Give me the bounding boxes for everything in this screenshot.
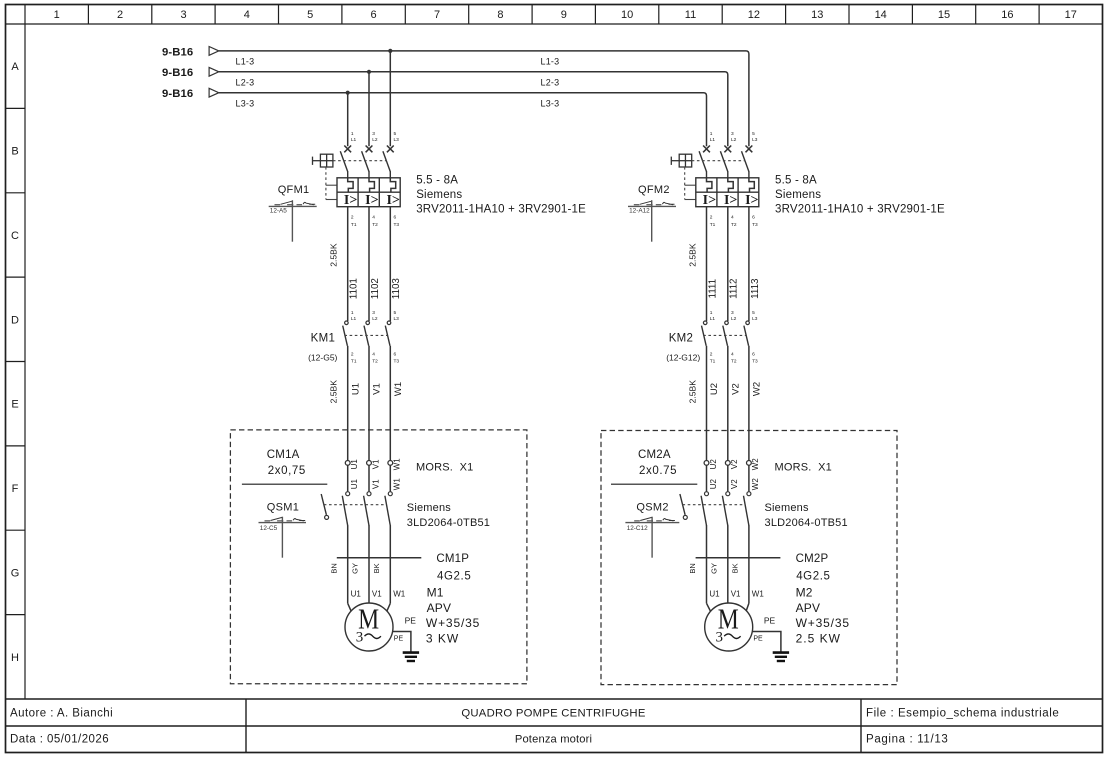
svg-text:(12-G12): (12-G12) bbox=[666, 353, 700, 363]
svg-text:2: 2 bbox=[117, 9, 123, 21]
QFM2 pole 2 thermal element bbox=[728, 178, 733, 192]
svg-text:D: D bbox=[11, 314, 19, 326]
QFM1 pole 1 fixed contact X bbox=[344, 146, 351, 153]
QSM1 aux contacts mini-symbols bbox=[265, 517, 306, 521]
wire X1 to QSM2 pole 3 bbox=[748, 465, 750, 491]
svg-text:T3: T3 bbox=[394, 222, 400, 228]
svg-text:2x0,75: 2x0,75 bbox=[268, 465, 306, 477]
svg-text:C: C bbox=[11, 230, 19, 242]
svg-text:QFM2: QFM2 bbox=[638, 184, 670, 196]
svg-text:1103: 1103 bbox=[391, 278, 402, 300]
svg-text:PE: PE bbox=[405, 615, 417, 625]
svg-text:6: 6 bbox=[394, 351, 397, 357]
QFM2 aux contacts mini-symbols bbox=[634, 201, 675, 205]
switch part number Siemens 3LD2064-0TB51 bbox=[765, 502, 848, 529]
QFM2 pole 1 blade bbox=[699, 151, 706, 171]
QSM1 pole 2 contact circle bbox=[367, 492, 371, 496]
QFM2 pole 3 thermal element bbox=[749, 178, 754, 192]
QSM1 cross-reference line bbox=[259, 522, 307, 524]
wire into motor pole 1 bbox=[707, 603, 714, 616]
svg-text:1: 1 bbox=[351, 310, 354, 316]
QFM1 pole 2 blade bbox=[362, 151, 369, 171]
svg-text:4: 4 bbox=[731, 215, 734, 221]
svg-text:13: 13 bbox=[811, 9, 823, 21]
QFM1 cross-reference line bbox=[269, 205, 317, 207]
svg-text:4: 4 bbox=[372, 215, 375, 221]
svg-text:I>: I> bbox=[703, 193, 716, 208]
svg-text:I>: I> bbox=[344, 193, 357, 208]
svg-text:W2: W2 bbox=[752, 382, 763, 396]
enclosure dashed box around M2 bbox=[601, 431, 897, 685]
QSM2 aux contacts mini-symbols bbox=[634, 517, 675, 521]
svg-text:T3: T3 bbox=[394, 358, 400, 364]
row letters A-H bbox=[11, 61, 20, 664]
svg-text:5.5 - 8A: 5.5 - 8A bbox=[416, 174, 458, 186]
svg-text:T1: T1 bbox=[710, 358, 716, 364]
svg-text:2: 2 bbox=[710, 215, 713, 221]
wire 1111 QFM to KM pole 1 bbox=[706, 207, 708, 321]
svg-text:PE: PE bbox=[394, 635, 404, 642]
svg-text:3RV2011-1HA10 + 3RV2901-1E: 3RV2011-1HA10 + 3RV2901-1E bbox=[775, 204, 945, 216]
svg-text:I>: I> bbox=[724, 193, 737, 208]
svg-text:APV: APV bbox=[427, 601, 452, 615]
svg-text:Autore : A. Bianchi: Autore : A. Bianchi bbox=[10, 708, 113, 720]
QFM1 operator handle bbox=[313, 154, 333, 167]
svg-text:16: 16 bbox=[1001, 9, 1013, 21]
svg-text:L3: L3 bbox=[394, 316, 400, 322]
wire QFM1 pole 2 blade to box bbox=[368, 171, 370, 178]
svg-text:H: H bbox=[11, 652, 19, 664]
svg-text:G: G bbox=[11, 567, 20, 579]
QSM1 mechanism blade bbox=[321, 494, 326, 515]
svg-text:I>: I> bbox=[745, 193, 758, 208]
svg-text:2.5BK: 2.5BK bbox=[687, 243, 697, 267]
svg-text:MORS. X1: MORS. X1 bbox=[416, 462, 473, 474]
QSM2 pole 1 contact circle bbox=[705, 492, 709, 496]
svg-text:W2: W2 bbox=[751, 458, 760, 471]
KM1 pole 3 contact circle bbox=[387, 321, 391, 325]
svg-text:APV: APV bbox=[796, 601, 821, 615]
svg-text:L1-3: L1-3 bbox=[236, 57, 255, 67]
svg-text:1: 1 bbox=[710, 131, 713, 137]
motor M1 circle bbox=[345, 603, 393, 651]
svg-text:V2: V2 bbox=[731, 383, 742, 395]
svg-text:M2: M2 bbox=[796, 586, 813, 600]
svg-text:Siemens: Siemens bbox=[416, 189, 462, 201]
QSM2 mechanism blade bbox=[680, 494, 685, 515]
svg-text:I>: I> bbox=[386, 193, 399, 208]
KM2 pole 2 blade bbox=[723, 326, 728, 346]
QSM2 linkage dashed bbox=[683, 504, 745, 506]
svg-text:Pagina : 11/13: Pagina : 11/13 bbox=[866, 734, 948, 746]
svg-text:V2: V2 bbox=[730, 459, 739, 469]
QFM2 pole 3 fixed contact X bbox=[746, 146, 753, 153]
wire QFM2 pole 3 blade to box bbox=[748, 171, 750, 178]
QFM2 rating label 5.5 - 8A Siemens bbox=[775, 174, 945, 215]
svg-text:CM2A: CM2A bbox=[638, 449, 671, 461]
enclosure dashed box around M1 bbox=[230, 430, 527, 684]
svg-text:L1: L1 bbox=[710, 316, 716, 322]
svg-text:U2: U2 bbox=[709, 383, 720, 395]
svg-text:2: 2 bbox=[351, 215, 354, 221]
svg-text:BK: BK bbox=[731, 563, 740, 573]
terminal X1 U1 circle bbox=[345, 461, 350, 466]
QFM1 pole 2 fixed contact X bbox=[366, 146, 373, 153]
junction dot L1-3 bbox=[388, 49, 392, 53]
motor cable rule line bbox=[337, 557, 422, 559]
KM1 pole 1 blade bbox=[343, 326, 348, 346]
motor M2 circle bbox=[705, 603, 753, 651]
QFM1 pole 1 thermal element bbox=[348, 178, 353, 192]
QSM2 pole 2 blade bbox=[722, 496, 727, 526]
svg-text:L2-3: L2-3 bbox=[541, 78, 560, 88]
wire KM2 to terminal X1 pole 3 bbox=[748, 346, 750, 461]
svg-text:L2: L2 bbox=[731, 316, 737, 322]
svg-text:U1: U1 bbox=[350, 479, 359, 490]
svg-text:W1: W1 bbox=[393, 382, 404, 396]
svg-text:E: E bbox=[11, 399, 18, 411]
svg-text:T3: T3 bbox=[752, 222, 758, 228]
svg-text:T2: T2 bbox=[372, 358, 378, 364]
svg-text:F: F bbox=[12, 483, 19, 495]
svg-text:T2: T2 bbox=[372, 222, 378, 228]
QFM2 pole 2 blade bbox=[720, 151, 727, 171]
svg-text:L2: L2 bbox=[372, 137, 378, 143]
svg-text:Data : 05/01/2026: Data : 05/01/2026 bbox=[10, 734, 109, 746]
QSM1 linkage dashed bbox=[324, 504, 386, 506]
svg-text:QUADRO POMPE CENTRIFUGHE: QUADRO POMPE CENTRIFUGHE bbox=[461, 708, 645, 720]
svg-text:L3: L3 bbox=[752, 137, 758, 143]
wire QFM1 pole 1 blade to box bbox=[347, 171, 349, 178]
svg-text:2: 2 bbox=[351, 351, 354, 357]
KM2 pole 2 contact circle bbox=[725, 321, 729, 325]
svg-text:Siemens: Siemens bbox=[765, 502, 809, 514]
svg-text:W+35/35: W+35/35 bbox=[426, 616, 480, 630]
svg-text:GY: GY bbox=[709, 563, 718, 574]
svg-text:2.5BK: 2.5BK bbox=[329, 243, 339, 267]
QFM2 pole 1 fixed contact X bbox=[703, 146, 710, 153]
QFM2 operator handle bbox=[671, 154, 691, 167]
wire into motor pole 3 bbox=[385, 603, 391, 616]
svg-text:2.5 KW: 2.5 KW bbox=[796, 631, 841, 645]
terminal X1 V1 circle bbox=[367, 461, 372, 466]
svg-text:QFM1: QFM1 bbox=[278, 184, 310, 196]
svg-text:L2-3: L2-3 bbox=[236, 78, 255, 88]
QFM2 pole 1 thermal element bbox=[707, 178, 712, 192]
junction dot L2-3 bbox=[367, 70, 371, 74]
svg-text:L3: L3 bbox=[394, 137, 400, 143]
svg-text:14: 14 bbox=[875, 9, 887, 21]
QSM2 pole 1 blade bbox=[701, 496, 706, 526]
QFM1 aux contacts mini-symbols bbox=[275, 201, 316, 205]
wire QSM1 to motor pole 2 bbox=[368, 525, 370, 603]
svg-text:CM1A: CM1A bbox=[267, 449, 300, 461]
svg-text:U2: U2 bbox=[709, 479, 718, 490]
svg-text:T2: T2 bbox=[731, 222, 737, 228]
svg-text:3: 3 bbox=[731, 310, 734, 316]
svg-text:CM1P: CM1P bbox=[436, 553, 469, 565]
wire QFM2 pole 2 blade to box bbox=[727, 171, 729, 178]
svg-text:1102: 1102 bbox=[370, 278, 381, 299]
wire KM1 to terminal X1 pole 1 bbox=[347, 346, 349, 461]
svg-text:5: 5 bbox=[752, 310, 755, 316]
PE wire from motor to earth bbox=[752, 632, 781, 652]
svg-text:4G2.5: 4G2.5 bbox=[437, 570, 471, 582]
QFM1 handle to trip units dashed drop bbox=[326, 167, 337, 200]
svg-text:W1: W1 bbox=[393, 478, 402, 491]
wire drop to QFM1 pole1 from L3-3 bbox=[347, 93, 349, 147]
svg-text:I>: I> bbox=[365, 193, 378, 208]
QSM2 pole 3 blade bbox=[744, 496, 749, 526]
QFM2 breaker body box bbox=[696, 178, 759, 207]
svg-text:2.5BK: 2.5BK bbox=[329, 380, 339, 404]
switch part number Siemens 3LD2064-0TB51 bbox=[407, 502, 490, 529]
svg-text:L1: L1 bbox=[710, 137, 716, 143]
svg-text:BN: BN bbox=[329, 563, 338, 573]
wire KM2 to terminal X1 pole 2 bbox=[727, 346, 729, 461]
wire feeder L1-3 horizontal bbox=[219, 51, 749, 146]
svg-text:3LD2064-0TB51: 3LD2064-0TB51 bbox=[407, 517, 490, 529]
svg-text:T1: T1 bbox=[351, 222, 357, 228]
QFM1 cross-reference stem bbox=[291, 200, 293, 242]
svg-text:3: 3 bbox=[715, 630, 723, 646]
svg-text:9-B16: 9-B16 bbox=[162, 67, 193, 79]
svg-text:3 KW: 3 KW bbox=[426, 631, 459, 645]
svg-text:V1: V1 bbox=[372, 383, 383, 395]
svg-text:15: 15 bbox=[938, 9, 950, 21]
QFM1 pole 3 fixed contact X bbox=[387, 146, 394, 153]
svg-text:7: 7 bbox=[434, 9, 440, 21]
terminal X1 U2 circle bbox=[704, 461, 709, 466]
wire QFM1 pole 3 blade to box bbox=[389, 171, 391, 178]
wire 1112 QFM to KM pole 2 bbox=[727, 207, 729, 321]
motor cable rule line bbox=[696, 557, 781, 559]
svg-text:V1: V1 bbox=[371, 459, 380, 469]
svg-text:12: 12 bbox=[748, 9, 760, 21]
svg-text:6: 6 bbox=[752, 351, 755, 357]
QFM1 pole 3 thermal element bbox=[390, 178, 395, 192]
svg-text:2: 2 bbox=[710, 351, 713, 357]
svg-text:9-B16: 9-B16 bbox=[162, 88, 193, 100]
svg-text:1101: 1101 bbox=[349, 278, 360, 299]
wire KM1 to terminal X1 pole 3 bbox=[389, 346, 391, 461]
svg-text:10: 10 bbox=[621, 9, 633, 21]
svg-text:BN: BN bbox=[688, 563, 697, 573]
wire QSM1 to motor pole 3 bbox=[389, 525, 391, 603]
svg-text:4: 4 bbox=[731, 351, 734, 357]
QFM1 rating label 5.5 - 8A Siemens bbox=[416, 174, 586, 215]
QSM1 pole 3 blade bbox=[385, 496, 390, 526]
svg-text:3: 3 bbox=[731, 131, 734, 137]
svg-text:12-A12: 12-A12 bbox=[629, 207, 650, 214]
QFM2 cross-reference line bbox=[628, 205, 676, 207]
svg-text:KM1: KM1 bbox=[311, 332, 336, 344]
wire QFM2 pole 1 blade to box bbox=[706, 171, 708, 178]
wire 1103 QFM to KM pole 3 bbox=[389, 207, 391, 321]
QFM2 handle linkage dashed bbox=[692, 160, 746, 162]
wire into motor pole 1 bbox=[348, 603, 354, 616]
svg-text:T1: T1 bbox=[710, 222, 716, 228]
svg-text:KM2: KM2 bbox=[669, 332, 694, 344]
control cable rule line bbox=[242, 483, 327, 485]
earth ground symbol bbox=[773, 653, 789, 661]
wire X1 to QSM2 pole 2 bbox=[727, 465, 729, 491]
svg-text:L1-3: L1-3 bbox=[541, 57, 560, 67]
wire QSM1 to motor pole 1 bbox=[347, 525, 349, 603]
QSM2 pole 2 contact circle bbox=[726, 492, 730, 496]
PE wire from motor to earth bbox=[393, 632, 411, 652]
control cable rule line bbox=[611, 483, 697, 485]
svg-text:5: 5 bbox=[752, 131, 755, 137]
svg-text:L3-3: L3-3 bbox=[236, 99, 255, 109]
KM1 pole 2 blade bbox=[364, 326, 369, 346]
QFM1 pole 3 blade bbox=[383, 151, 390, 171]
svg-text:6: 6 bbox=[394, 215, 397, 221]
motor sine wave bbox=[365, 634, 381, 639]
svg-text:12-C12: 12-C12 bbox=[627, 525, 648, 532]
svg-text:4: 4 bbox=[372, 351, 375, 357]
svg-text:PE: PE bbox=[764, 615, 776, 625]
svg-text:8: 8 bbox=[497, 9, 503, 21]
column numbers 1-17 bbox=[54, 9, 1077, 21]
svg-text:V2: V2 bbox=[730, 479, 739, 489]
svg-text:U2: U2 bbox=[709, 459, 718, 470]
svg-text:3: 3 bbox=[180, 9, 186, 21]
svg-text:1: 1 bbox=[710, 310, 713, 316]
svg-text:BK: BK bbox=[372, 563, 381, 573]
wire into motor pole 3 bbox=[744, 603, 749, 616]
svg-text:L3-3: L3-3 bbox=[541, 99, 560, 109]
QFM2 handle to trip units dashed drop bbox=[685, 167, 696, 200]
svg-text:12-A5: 12-A5 bbox=[270, 207, 287, 214]
svg-text:T3: T3 bbox=[752, 358, 758, 364]
QFM2 pole 2 fixed contact X bbox=[724, 146, 731, 153]
source arrow 9-B16 line L2 bbox=[162, 67, 219, 79]
motor sine wave bbox=[724, 634, 740, 639]
wire feeder L2-3 horizontal bbox=[219, 72, 728, 146]
svg-text:6: 6 bbox=[752, 215, 755, 221]
wire X1 to QSM2 pole 1 bbox=[706, 465, 708, 491]
svg-text:1112: 1112 bbox=[729, 279, 740, 299]
KM1 pole 3 blade bbox=[385, 326, 390, 346]
svg-text:L2: L2 bbox=[372, 316, 378, 322]
wire X1 to QSM1 pole 2 bbox=[368, 465, 370, 491]
wire X1 to QSM1 pole 3 bbox=[389, 465, 391, 491]
KM1 pole 1 contact circle bbox=[345, 321, 349, 325]
QFM2 pole 3 blade bbox=[742, 151, 749, 171]
svg-text:MORS. X1: MORS. X1 bbox=[775, 462, 832, 474]
source arrow 9-B16 line L3 bbox=[162, 88, 219, 100]
svg-text:L2: L2 bbox=[731, 137, 737, 143]
svg-text:5: 5 bbox=[394, 131, 397, 137]
svg-text:GY: GY bbox=[351, 563, 360, 574]
KM1 pole 2 contact circle bbox=[366, 321, 370, 325]
QSM1 pole 1 contact circle bbox=[346, 492, 350, 496]
terminal X1 W1 circle bbox=[388, 461, 393, 466]
QSM1 pole 1 blade bbox=[342, 496, 347, 526]
svg-text:1111: 1111 bbox=[707, 279, 718, 299]
wire QSM2 to motor pole 3 bbox=[748, 525, 750, 603]
QSM1 pole 3 contact circle bbox=[388, 492, 392, 496]
svg-text:T2: T2 bbox=[731, 358, 737, 364]
svg-text:U1: U1 bbox=[709, 590, 720, 599]
QFM1 pole 1 blade bbox=[340, 151, 347, 171]
KM2 pole 1 contact circle bbox=[703, 321, 707, 325]
junction dot L3-3 bbox=[346, 91, 350, 95]
wire drop to QFM1 pole2 from L2-3 bbox=[368, 72, 370, 146]
svg-text:W1: W1 bbox=[393, 458, 402, 471]
wire 1113 QFM to KM pole 3 bbox=[748, 207, 750, 321]
svg-text:3: 3 bbox=[372, 310, 375, 316]
wire KM1 to terminal X1 pole 2 bbox=[368, 346, 370, 461]
svg-text:Potenza motori: Potenza motori bbox=[515, 734, 592, 746]
svg-text:W1: W1 bbox=[752, 590, 765, 599]
svg-text:W1: W1 bbox=[393, 590, 406, 599]
svg-text:11: 11 bbox=[685, 9, 696, 21]
KM1 linkage dashed bbox=[344, 334, 387, 336]
QFM2 cross-reference stem bbox=[651, 200, 653, 242]
KM2 pole 3 blade bbox=[744, 326, 749, 346]
svg-text:QSM1: QSM1 bbox=[267, 502, 299, 514]
svg-text:9-B16: 9-B16 bbox=[162, 46, 193, 58]
QFM1 handle linkage dashed bbox=[333, 160, 387, 162]
wire feeder L3-3 horizontal bbox=[219, 93, 707, 147]
KM2 pole 1 blade bbox=[702, 326, 707, 346]
wire drop to QFM1 pole3 from L1-3 bbox=[389, 51, 391, 146]
KM2 linkage dashed bbox=[703, 334, 746, 336]
wire QSM2 to motor pole 1 bbox=[706, 525, 708, 603]
wire KM2 to terminal X1 pole 1 bbox=[706, 346, 708, 461]
svg-text:L1: L1 bbox=[351, 316, 357, 322]
svg-text:3: 3 bbox=[372, 131, 375, 137]
svg-text:2.5BK: 2.5BK bbox=[687, 380, 697, 404]
svg-text:U1: U1 bbox=[350, 383, 361, 395]
svg-text:1113: 1113 bbox=[750, 278, 761, 299]
terminal X1 V2 circle bbox=[725, 461, 730, 466]
svg-text:V1: V1 bbox=[371, 479, 380, 489]
QSM1 cross-reference stem bbox=[281, 517, 283, 558]
svg-text:17: 17 bbox=[1065, 9, 1077, 21]
svg-text:12-C5: 12-C5 bbox=[260, 525, 278, 532]
wire 1102 QFM to KM pole 2 bbox=[368, 207, 370, 321]
wire 1101 QFM to KM pole 1 bbox=[347, 207, 349, 321]
svg-text:File : Esempio_schema industri: File : Esempio_schema industriale bbox=[866, 708, 1059, 720]
terminal X1 W2 circle bbox=[747, 461, 752, 466]
svg-text:1: 1 bbox=[351, 131, 354, 137]
svg-text:5: 5 bbox=[307, 9, 313, 21]
QSM2 cross-reference stem bbox=[651, 517, 653, 558]
svg-text:Siemens: Siemens bbox=[407, 502, 451, 514]
QSM2 mechanism circle bbox=[683, 515, 687, 519]
earth ground symbol bbox=[403, 653, 419, 661]
QFM1 pole 2 thermal element bbox=[369, 178, 374, 192]
QSM2 cross-reference line bbox=[625, 522, 679, 524]
svg-text:L1: L1 bbox=[351, 137, 357, 143]
svg-text:3LD2064-0TB51: 3LD2064-0TB51 bbox=[765, 517, 848, 529]
svg-text:W+35/35: W+35/35 bbox=[796, 616, 850, 630]
svg-text:3: 3 bbox=[356, 630, 364, 646]
QSM1 mechanism circle bbox=[325, 515, 329, 519]
svg-text:B: B bbox=[11, 146, 18, 158]
QSM2 pole 3 contact circle bbox=[747, 492, 751, 496]
svg-text:1: 1 bbox=[54, 9, 60, 21]
svg-text:2x0.75: 2x0.75 bbox=[639, 465, 677, 477]
svg-text:T1: T1 bbox=[351, 358, 357, 364]
svg-text:L3: L3 bbox=[752, 316, 758, 322]
svg-text:3RV2011-1HA10 + 3RV2901-1E: 3RV2011-1HA10 + 3RV2901-1E bbox=[416, 204, 586, 216]
svg-text:M1: M1 bbox=[427, 586, 444, 600]
QSM1 pole 2 blade bbox=[364, 496, 369, 526]
